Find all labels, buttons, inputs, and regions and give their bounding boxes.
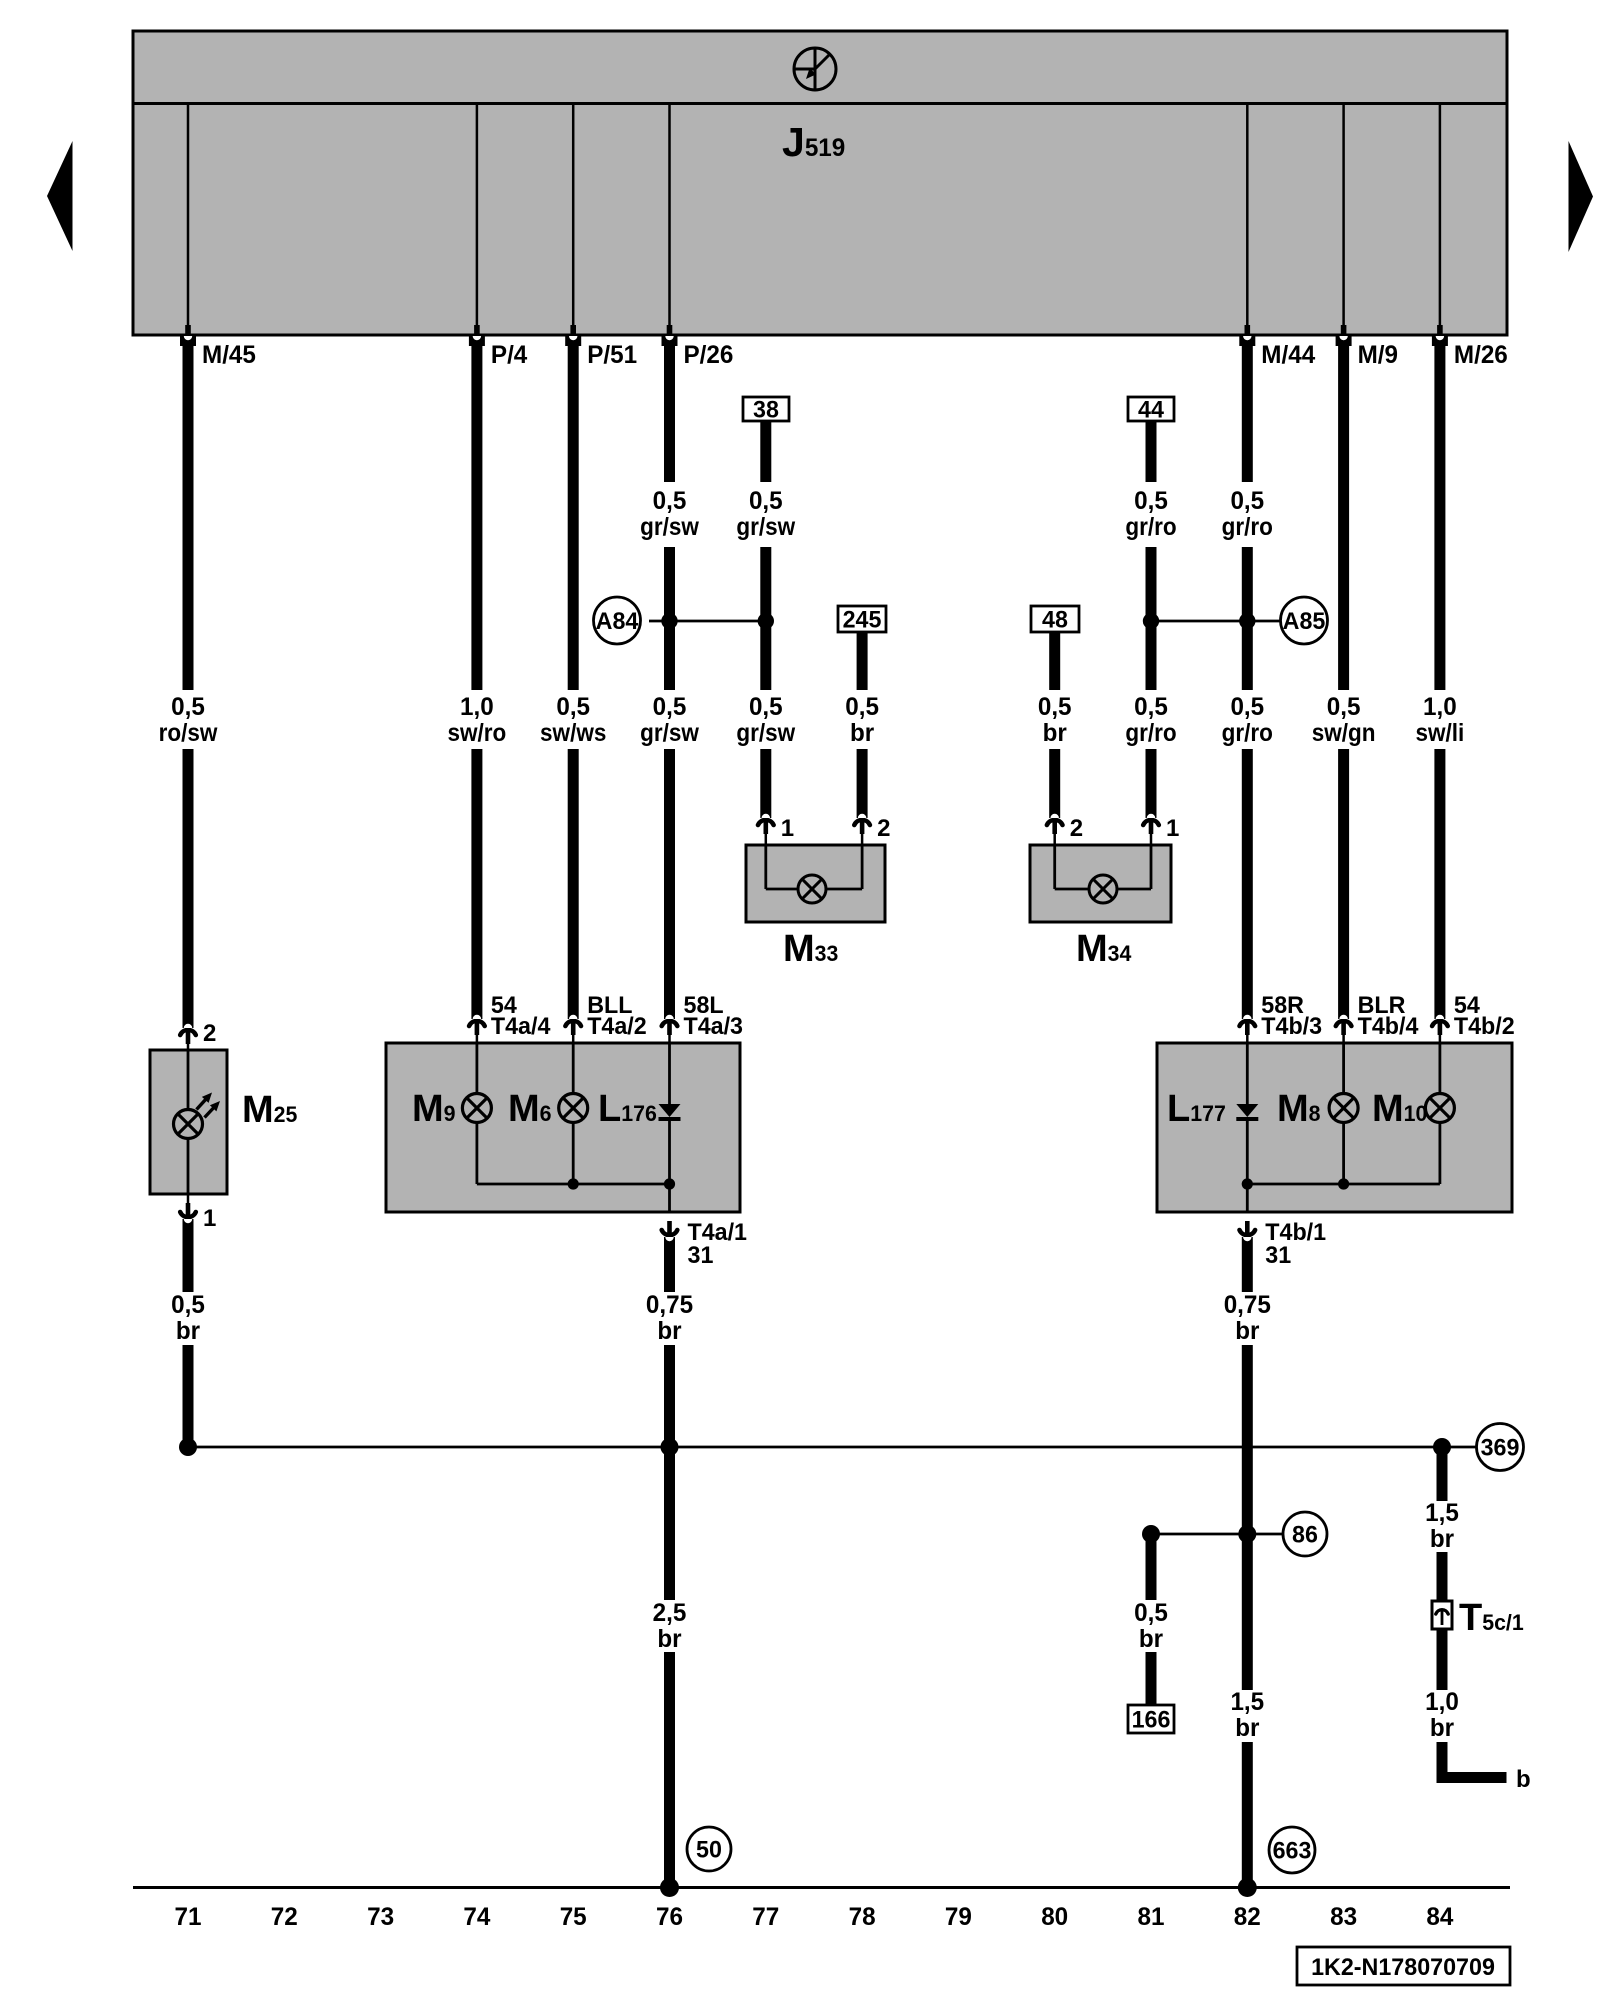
connector pin T4a/3 — [662, 1015, 678, 1044]
svg-text:A84: A84 — [596, 608, 639, 635]
svg-text:gr/sw: gr/sw — [736, 719, 795, 747]
T4a internal wire col75 — [572, 1044, 575, 1094]
wire label 0,75 br (left) — [646, 1291, 693, 1345]
svg-text:1K2-N178070709: 1K2-N178070709 — [1311, 1954, 1495, 1981]
svg-text:1: 1 — [1166, 815, 1179, 842]
svg-text:T4b/3: T4b/3 — [1261, 1013, 1322, 1040]
svg-text:gr/ro: gr/ro — [1222, 513, 1273, 541]
wire 1,0 sw/ro lower segment — [471, 749, 482, 1019]
T4a internal wire col76 — [668, 1044, 671, 1104]
diode symbol L177 — [1236, 1104, 1258, 1121]
wire 0,5 ro/sw lower segment — [183, 749, 194, 1028]
label M9 — [412, 1088, 456, 1130]
label L176 — [598, 1088, 657, 1130]
node circle A85 — [1281, 597, 1328, 644]
svg-text:0,5: 0,5 — [653, 693, 687, 721]
svg-text:48: 48 — [1042, 607, 1068, 634]
svg-text:sw/ro: sw/ro — [448, 719, 507, 747]
connector M/44 at J519 housing — [1239, 336, 1255, 346]
connector P/51 at J519 housing — [565, 336, 581, 346]
glove box lamp M25 body — [150, 1050, 227, 1194]
connector M/9 at J519 housing — [1336, 336, 1352, 346]
control unit J519 body — [133, 31, 1507, 335]
svg-text:86: 86 — [1292, 1522, 1318, 1549]
svg-text:br: br — [1430, 1525, 1454, 1553]
svg-text:0,5: 0,5 — [1327, 693, 1361, 721]
M25 internal wire bottom — [187, 1138, 190, 1193]
symbol K inside J519 — [794, 48, 836, 91]
svg-text:T4b/4: T4b/4 — [1358, 1013, 1419, 1040]
J519 internal wire and pin M/26 — [1437, 105, 1443, 336]
svg-text:0,75: 0,75 — [1224, 1291, 1271, 1319]
svg-text:0,5: 0,5 — [749, 487, 783, 515]
svg-text:80: 80 — [1041, 1903, 1068, 1931]
connector pin T4a/1 — [662, 1221, 678, 1241]
svg-text:T4a/4: T4a/4 — [491, 1013, 551, 1040]
lamp symbol in M33 — [798, 875, 826, 903]
wire-destination circle 369 — [1477, 1424, 1524, 1471]
svg-text:0,5: 0,5 — [1230, 693, 1264, 721]
M25 internal wire top — [187, 1051, 190, 1110]
svg-text:2: 2 — [877, 815, 890, 842]
svg-text:br: br — [1430, 1714, 1454, 1742]
T4b internal wire col82 — [1246, 1044, 1249, 1104]
pin number 1 at M33 — [781, 815, 794, 842]
svg-text:71: 71 — [175, 1903, 202, 1931]
pin label M/44 — [1261, 341, 1315, 369]
svg-text:0,5: 0,5 — [1134, 693, 1168, 721]
label M8 — [1277, 1088, 1321, 1130]
svg-text:P/26: P/26 — [684, 341, 734, 369]
wire 0,5 br from 245 — [857, 632, 868, 690]
pin number 2 at M25 — [203, 1020, 216, 1047]
svg-text:br: br — [176, 1317, 200, 1345]
junction node A84 line / col77 — [758, 613, 774, 629]
lamp symbol M10 — [1425, 1094, 1454, 1123]
wire 0,75 br upper (left) — [664, 1237, 675, 1292]
svg-text:M/26: M/26 — [1454, 341, 1508, 369]
connector pin 1 of M25 — [180, 1194, 196, 1223]
lamp symbol M8 — [1329, 1094, 1358, 1123]
wire label 0,75 br (right) — [1224, 1291, 1271, 1345]
connector pin T4a/4 — [469, 1015, 485, 1044]
svg-text:0,5: 0,5 — [556, 693, 590, 721]
svg-text:br: br — [1043, 719, 1067, 747]
junction node wire71 / ground rail — [179, 1438, 197, 1456]
T4b internal wire col84 — [1439, 1044, 1442, 1094]
page-link arrow left — [47, 141, 73, 251]
pin number 1 at M25 — [203, 1205, 216, 1232]
svg-text:663: 663 — [1273, 1838, 1312, 1865]
node A85 connection line — [1151, 620, 1280, 623]
wire 0,5 gr/ro col82 seg3 — [1242, 749, 1253, 1019]
svg-text:1,0: 1,0 — [1425, 1688, 1459, 1716]
wire 0,75 br mid (right) — [1242, 1345, 1253, 1690]
svg-text:2: 2 — [1070, 815, 1083, 842]
wire 0,5 br from 48 — [1049, 632, 1060, 690]
svg-text:b: b — [1516, 1766, 1531, 1793]
wire 0,5 br below M25 upper — [183, 1219, 194, 1292]
junction node 86-line col82 — [1238, 1525, 1256, 1543]
wire 0,5 gr/sw col76 top segment — [664, 346, 675, 482]
wire 1,0 br elbow — [1437, 1742, 1507, 1783]
svg-text:P/51: P/51 — [587, 341, 637, 369]
junction node T4b bus col82 — [1242, 1178, 1253, 1189]
M33 internal circuit — [766, 846, 862, 889]
lamp symbol in M34 — [1089, 875, 1117, 903]
svg-text:T4b/2: T4b/2 — [1454, 1013, 1515, 1040]
pin number 2 at M34 — [1070, 815, 1083, 842]
wire label 0,5 gr/sw (col77 lower) — [736, 693, 795, 747]
indicator arrows of M25 — [197, 1093, 221, 1118]
connector pin 2 of M34 — [1047, 814, 1063, 846]
wire 1,0 sw/ro upper segment — [471, 346, 482, 690]
svg-text:72: 72 — [271, 1903, 298, 1931]
diagram code box 1K2-N178070709 — [1297, 1947, 1510, 1985]
pin label T4a/1 31 — [688, 1219, 748, 1269]
wire 0,5 gr/sw col77 mid — [760, 547, 771, 690]
svg-text:1,0: 1,0 — [1423, 693, 1457, 721]
wire-destination circle 86 — [1283, 1512, 1327, 1556]
svg-text:245: 245 — [843, 607, 882, 634]
right headlamp unit body (T4b) — [1157, 1043, 1512, 1212]
svg-text:M33: M33 — [783, 928, 838, 970]
lamp symbol in M25 — [174, 1110, 203, 1139]
wire label 0,5 gr/sw (col76 lower) — [640, 693, 699, 747]
connector pin T4b/2 — [1432, 1015, 1448, 1044]
pin label M/9 — [1358, 341, 1398, 369]
wire 0,75 br mid (left) — [664, 1345, 675, 1600]
label M6 — [508, 1088, 552, 1130]
pin label 58L T4a/3 — [684, 992, 744, 1040]
svg-text:31: 31 — [688, 1242, 714, 1269]
svg-text:1,5: 1,5 — [1230, 1688, 1264, 1716]
pin label 54 T4b/2 — [1454, 992, 1515, 1040]
terminal box 38 — [743, 397, 789, 424]
svg-text:82: 82 — [1234, 1903, 1261, 1931]
wire 1,0 sw/li upper segment — [1434, 346, 1445, 690]
lamp symbol M6 — [559, 1094, 588, 1123]
J519 internal wire and pin P/51 — [570, 105, 576, 336]
wire 0,5 gr/ro col82 top segment — [1242, 346, 1253, 482]
T4b internal wire col83 lower — [1342, 1123, 1345, 1184]
diode symbol L176 — [659, 1104, 681, 1121]
svg-text:gr/sw: gr/sw — [736, 513, 795, 541]
node A84 connection line — [649, 620, 766, 623]
wire 0,5 br below M25 lower — [183, 1345, 194, 1447]
junction node ground rail col76 — [661, 1438, 679, 1456]
svg-text:sw/ws: sw/ws — [540, 719, 606, 747]
svg-text:gr/sw: gr/sw — [640, 719, 699, 747]
svg-text:31: 31 — [1265, 1242, 1291, 1269]
svg-text:1,0: 1,0 — [460, 693, 494, 721]
label M25 — [242, 1089, 297, 1131]
J519 internal wire and pin M/45 — [185, 105, 191, 336]
svg-text:M25: M25 — [242, 1089, 297, 1131]
wire label 0,5 br (col78) — [845, 693, 879, 747]
svg-text:78: 78 — [849, 1903, 876, 1931]
wire label 0,5 br (col80) — [1038, 693, 1072, 747]
svg-text:2: 2 — [203, 1020, 216, 1047]
svg-text:83: 83 — [1330, 1903, 1357, 1931]
svg-text:0,75: 0,75 — [646, 1291, 693, 1319]
svg-text:M/9: M/9 — [1358, 341, 1398, 369]
terminal box 245 — [838, 606, 886, 634]
pin number 1 at M34 — [1166, 815, 1179, 842]
svg-text:166: 166 — [1132, 1707, 1171, 1734]
wire 0,75 br upper (right) — [1242, 1237, 1253, 1292]
pin label M/45 — [202, 341, 256, 369]
J519 internal wire and pin M/9 — [1341, 105, 1347, 336]
branch line to node 86 — [1151, 1533, 1283, 1536]
svg-text:77: 77 — [752, 1903, 779, 1931]
svg-text:br: br — [850, 719, 874, 747]
ground equalizer rail — [188, 1446, 1477, 1449]
terminal box 44 — [1128, 397, 1174, 424]
svg-text:79: 79 — [945, 1903, 972, 1931]
svg-text:0,5: 0,5 — [1038, 693, 1072, 721]
wire label 2,5 br — [653, 1599, 687, 1653]
wire label 1,0 sw/li — [1416, 693, 1465, 747]
wire 0,5 gr/ro from 44 upper — [1146, 420, 1157, 482]
wire 0,5 br col80 lower — [1049, 749, 1060, 818]
svg-text:76: 76 — [656, 1903, 683, 1931]
svg-text:0,5: 0,5 — [1134, 1599, 1168, 1627]
label M34 — [1076, 928, 1132, 970]
wire label 0,5 br (M25) — [171, 1291, 205, 1345]
svg-text:gr/ro: gr/ro — [1125, 719, 1176, 747]
junction node T4a bus col75 — [568, 1178, 579, 1189]
svg-text:0,5: 0,5 — [749, 693, 783, 721]
label T5c/1 — [1459, 1597, 1524, 1639]
J519 internal wire and pin P/4 — [474, 105, 480, 336]
wire-destination label b — [1516, 1766, 1531, 1793]
svg-text:P/4: P/4 — [491, 341, 527, 369]
connector pin T4b/4 — [1336, 1015, 1352, 1044]
wire 0,5 gr/sw col76 mid segment — [664, 547, 675, 690]
svg-text:gr/sw: gr/sw — [640, 513, 699, 541]
wire 1,0 sw/li lower segment — [1434, 749, 1445, 1019]
svg-text:T4a/3: T4a/3 — [684, 1013, 744, 1040]
connector P/4 at J519 housing — [469, 336, 485, 346]
svg-text:75: 75 — [560, 1903, 587, 1931]
T4a internal wire col74 — [475, 1044, 478, 1094]
svg-text:gr/ro: gr/ro — [1222, 719, 1273, 747]
J519 internal wire and pin M/44 — [1245, 105, 1251, 336]
junction node A85 line / col82 — [1239, 613, 1255, 629]
junction node A84 line / col76 — [661, 613, 677, 629]
junction node T4a bus col76 — [664, 1178, 675, 1189]
junction node T4b bus col83 — [1338, 1178, 1349, 1189]
ground point circle 663 — [1269, 1827, 1315, 1873]
wire 0,5 gr/ro col81 mid — [1146, 547, 1157, 690]
connector pin 2 of M33 — [854, 814, 870, 846]
T4a internal bus — [477, 1183, 670, 1186]
connector M/26 at J519 housing — [1432, 336, 1448, 346]
connector pin T4b/3 — [1240, 1015, 1256, 1044]
pin label M/26 — [1454, 341, 1508, 369]
svg-text:369: 369 — [1481, 1435, 1520, 1462]
connector pin 1 of M33 — [758, 814, 774, 846]
wire label 0,5 gr/sw (col76 upper) — [640, 487, 699, 541]
T4b internal wire col84 lower — [1439, 1123, 1442, 1184]
svg-text:br: br — [1139, 1625, 1163, 1653]
svg-text:0,5: 0,5 — [1134, 487, 1168, 515]
wire label 1,5 br (col82) — [1230, 1688, 1264, 1742]
right front turn signal M34 body — [1030, 845, 1171, 922]
svg-text:T4a/2: T4a/2 — [587, 1013, 647, 1040]
svg-text:br: br — [657, 1317, 681, 1345]
svg-text:br: br — [1235, 1317, 1259, 1345]
T4b internal wire col82 lower — [1246, 1121, 1249, 1213]
svg-text:br: br — [1235, 1714, 1259, 1742]
svg-text:1: 1 — [781, 815, 794, 842]
wire 1,5 br from 369 upper — [1437, 1447, 1448, 1501]
wire label 1,0 sw/ro — [448, 693, 507, 747]
junction node rail col84 — [1433, 1438, 1451, 1456]
pin label BLR T4b/4 — [1358, 992, 1419, 1040]
svg-text:2,5: 2,5 — [653, 1599, 687, 1627]
connector pin T4b/1 — [1240, 1221, 1256, 1241]
wire 0,5 gr/sw col77 seg3 — [760, 749, 771, 818]
wire 0,5 sw/ws upper segment — [568, 346, 579, 690]
wire 0,5 sw/gn lower segment — [1338, 749, 1349, 1019]
pin label 58R T4b/3 — [1261, 992, 1322, 1040]
pin number 2 at M33 — [877, 815, 890, 842]
wire label 0,5 gr/ro (col81 upper) — [1125, 487, 1176, 541]
inline connector T5c/1 symbol — [1432, 1601, 1452, 1629]
wire 0,5 ro/sw upper segment — [183, 346, 194, 690]
connector P/26 at J519 housing — [662, 336, 678, 346]
label L177 — [1167, 1088, 1226, 1130]
junction node 86-line col81 — [1142, 1525, 1160, 1543]
svg-text:0,5: 0,5 — [1230, 487, 1264, 515]
connector M/45 at J519 housing — [180, 336, 196, 346]
svg-text:74: 74 — [463, 1903, 490, 1931]
svg-text:M/45: M/45 — [202, 341, 256, 369]
wire label 1,5 br (col84) — [1425, 1499, 1459, 1553]
wire 0,5 gr/sw from 38 upper — [760, 420, 771, 482]
svg-text:ro/sw: ro/sw — [159, 719, 218, 747]
ground node 50 dot — [660, 1878, 679, 1897]
lamp symbol M9 — [462, 1094, 491, 1123]
coordinate numbers 71-84 — [175, 1903, 1454, 1931]
T4a internal wire col74 lower — [475, 1123, 478, 1184]
svg-text:1,5: 1,5 — [1425, 1499, 1459, 1527]
wire 0,5 sw/gn upper segment — [1338, 346, 1349, 690]
svg-text:A85: A85 — [1283, 608, 1326, 635]
wire 0,5 br col78 lower — [857, 749, 868, 818]
pin label T4b/1 31 — [1265, 1219, 1326, 1269]
label M33 — [783, 928, 838, 970]
pin label P/4 — [491, 341, 527, 369]
T4b internal wire col83 — [1342, 1044, 1345, 1094]
svg-text:sw/gn: sw/gn — [1312, 719, 1376, 747]
page-link arrow right — [1569, 141, 1594, 252]
wire label 0,5 sw/ws — [540, 693, 606, 747]
svg-text:0,5: 0,5 — [171, 693, 205, 721]
svg-text:br: br — [657, 1625, 681, 1653]
wire label 0,5 gr/ro (col82 lower) — [1222, 693, 1273, 747]
T4a internal wire col76 lower — [668, 1121, 671, 1213]
wire 0,5 sw/ws lower segment — [568, 749, 579, 1019]
wire label 0,5 br (col81) — [1134, 1599, 1168, 1653]
ground point circle 50 — [687, 1827, 731, 1871]
connector pin 1 of M34 — [1143, 814, 1159, 846]
wire 0,5 gr/ro col81 seg3 — [1146, 749, 1157, 818]
svg-text:gr/ro: gr/ro — [1125, 513, 1176, 541]
ground node 663 dot — [1238, 1878, 1257, 1897]
T4b internal bus — [1247, 1183, 1440, 1186]
pin label 54 T4a/4 — [491, 992, 551, 1040]
left headlamp unit body (T4a) — [386, 1043, 740, 1212]
node circle A84 — [594, 597, 641, 644]
coordinate baseline — [133, 1886, 1510, 1889]
wire 1,5 br to ground — [1242, 1742, 1253, 1888]
svg-text:50: 50 — [696, 1837, 722, 1864]
svg-text:M34: M34 — [1076, 928, 1132, 970]
pin label BLL T4a/2 — [587, 992, 647, 1040]
wire label 0,5 gr/sw (col77 upper) — [736, 487, 795, 541]
wire label 0,5 gr/ro (col82 upper) — [1222, 487, 1273, 541]
J519 internal wire and pin P/26 — [667, 105, 673, 336]
wire 1,0 br below T5c — [1437, 1629, 1448, 1690]
wire label 0,5 sw/gn — [1312, 693, 1376, 747]
svg-text:0,5: 0,5 — [845, 693, 879, 721]
svg-text:0,5: 0,5 — [171, 1291, 205, 1319]
svg-text:sw/li: sw/li — [1416, 719, 1465, 747]
pin label P/51 — [587, 341, 637, 369]
M34 internal circuit — [1055, 846, 1151, 889]
svg-text:1: 1 — [203, 1205, 216, 1232]
svg-text:T5c/1: T5c/1 — [1459, 1597, 1524, 1639]
wire label 1,0 br (col84) — [1425, 1688, 1459, 1742]
svg-text:73: 73 — [367, 1903, 394, 1931]
wire 0,5 gr/ro col82 mid segment — [1242, 547, 1253, 690]
wire 0,5 br col81 lower — [1146, 1652, 1157, 1706]
svg-text:0,5: 0,5 — [653, 487, 687, 515]
wire 1,5 br above T5c — [1437, 1552, 1448, 1601]
connector pin 2 of M25 — [180, 1024, 196, 1051]
T4a internal wire col75 lower — [572, 1123, 575, 1184]
wire 0,5 br col81 upper — [1146, 1534, 1157, 1600]
label J519 — [782, 119, 845, 165]
wire label 0,5 ro/sw — [159, 693, 218, 747]
terminal box 166 — [1128, 1705, 1174, 1734]
left front turn signal M33 body — [746, 845, 885, 922]
pin label P/26 — [684, 341, 734, 369]
svg-text:38: 38 — [753, 397, 779, 424]
svg-text:84: 84 — [1426, 1903, 1453, 1931]
svg-text:81: 81 — [1138, 1903, 1165, 1931]
label M10 — [1372, 1088, 1427, 1130]
wire label 0,5 gr/ro (col81 lower) — [1125, 693, 1176, 747]
wire 2,5 br to ground — [664, 1652, 675, 1888]
svg-text:M/44: M/44 — [1261, 341, 1315, 369]
wire 0,5 gr/sw col76 seg3 — [664, 749, 675, 1019]
connector pin T4a/2 — [565, 1015, 581, 1044]
terminal box 48 — [1031, 606, 1079, 634]
junction node A85 line / col81 — [1143, 613, 1159, 629]
svg-text:44: 44 — [1138, 397, 1165, 424]
